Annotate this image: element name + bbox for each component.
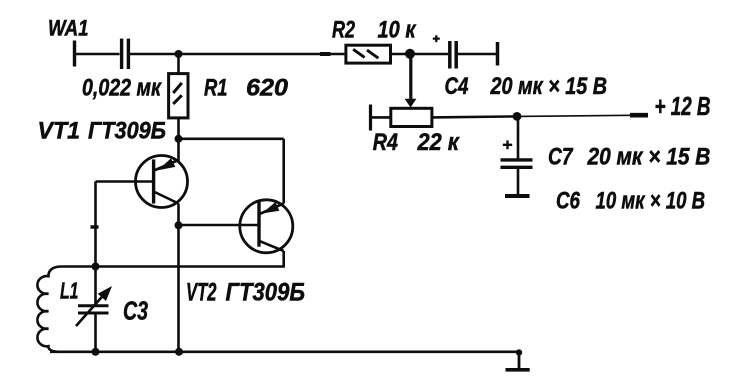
resistor R1 label [204, 75, 288, 102]
wire node to C4 [410, 53, 448, 56]
wire VT1 base branch down to tank [94, 182, 97, 267]
capacitor C7 [501, 160, 533, 194]
wire input capacitor to R2 [130, 53, 346, 56]
transistor VT2 label [186, 279, 305, 307]
junction tick on base branch [91, 225, 99, 229]
node R2 output [405, 49, 415, 59]
svg-text:R4: R4 [373, 129, 398, 156]
resistor R2 [346, 45, 391, 63]
antenna WA1 terminal bar [73, 41, 76, 67]
inductor L1 label [60, 278, 79, 304]
ground terminal [506, 349, 530, 370]
svg-text:ГТ309Б: ГТ309Б [88, 117, 166, 144]
variable capacitor C3 arrow [76, 286, 112, 326]
svg-text:620: 620 [246, 75, 288, 102]
transistor VT1 [136, 139, 188, 208]
svg-text:L1: L1 [60, 278, 79, 304]
svg-text:0,022 мк: 0,022 мк [82, 74, 162, 101]
wire wiper from node down to R4 [409, 56, 412, 100]
transistor VT2 emitter arrow [262, 202, 279, 214]
potentiometer R4 label [373, 129, 460, 156]
node supply junction [513, 112, 522, 121]
inductor L1 [37, 267, 62, 352]
wire emitter rail to VT2 [179, 138, 284, 141]
capacitor C4 [450, 41, 498, 69]
transistor VT1 label [38, 117, 167, 144]
wire VT1 base [96, 180, 153, 183]
node emitter junction below R1 [175, 135, 183, 143]
capacitor C4 label [445, 73, 608, 100]
capacitor C7 label [548, 144, 710, 171]
wire VT2 emitter drop [282, 139, 285, 204]
potentiometer R4 wiper arrow [405, 99, 417, 108]
capacitor C7 plus sign [503, 140, 512, 149]
svg-text:R2: R2 [332, 17, 355, 44]
capacitor 0,022 мк value label [82, 74, 162, 101]
svg-text:VT2: VT2 [186, 279, 217, 307]
wire R1 bottom to emitter node [177, 118, 180, 139]
capacitor C6 label [556, 187, 705, 214]
wire supply node to +12V terminal [517, 115, 648, 116]
svg-text:С6: С6 [556, 187, 581, 214]
svg-text:WA1: WA1 [48, 15, 89, 40]
wire VT2 collector down and left to tank [62, 251, 284, 267]
wire supply node down to C7 [517, 116, 520, 158]
node collector to rail [175, 348, 183, 356]
node VT2 base junction [175, 221, 183, 229]
wire R4 left terminal [371, 105, 391, 131]
potentiometer R4 [391, 108, 432, 126]
svg-text:+ 12 В: + 12 В [655, 91, 711, 121]
resistor R2 label [332, 17, 417, 44]
node top junction at R1 [175, 50, 183, 58]
svg-text:C7: C7 [548, 144, 574, 171]
wire R4 right to supply node [432, 116, 517, 117]
svg-text:20 мк × 15 В: 20 мк × 15 В [587, 144, 711, 171]
supply +12V label [655, 91, 711, 121]
svg-text:22 к: 22 к [417, 129, 461, 156]
node tank bottom [92, 348, 100, 356]
transistor VT2 [240, 200, 293, 253]
svg-text:ГТ309Б: ГТ309Б [226, 279, 306, 307]
node tank top [92, 263, 100, 271]
svg-text:10 мк × 10 В: 10 мк × 10 В [596, 187, 706, 214]
wire R2 to node [391, 53, 411, 56]
transistor VT1 emitter arrow [158, 158, 175, 170]
wire VT2 base [179, 224, 259, 227]
svg-text:10 к: 10 к [378, 17, 417, 44]
svg-text:20 мк × 15 В: 20 мк × 15 В [490, 73, 607, 100]
antenna WA1 label [48, 15, 89, 40]
resistor R1 [169, 74, 188, 118]
variable capacitor C3 label [123, 296, 148, 326]
svg-text:С3: С3 [123, 296, 148, 326]
capacitor C6 terminal bar [505, 194, 530, 198]
wire bottom rail [50, 350, 519, 353]
capacitor C4 plus sign [433, 35, 440, 42]
wire top node down to R1 [177, 54, 180, 74]
wire VT1 collector down [177, 204, 180, 352]
variable capacitor C3 [78, 267, 109, 352]
svg-text:C4: C4 [445, 73, 469, 100]
wire antenna to input capacitor [75, 53, 120, 56]
capacitor 0,022 мк [122, 39, 129, 69]
svg-text:R1: R1 [204, 75, 228, 102]
svg-text:VT1: VT1 [38, 117, 81, 144]
